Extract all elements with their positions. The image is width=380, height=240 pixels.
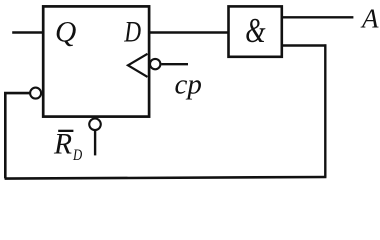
wire right riser <box>324 44 326 177</box>
reset bubble RD <box>89 119 101 131</box>
label R_D overline <box>58 130 73 132</box>
svg-text:cp: cp <box>175 68 202 100</box>
svg-text:&: & <box>245 11 266 50</box>
svg-text:R: R <box>53 129 72 161</box>
and-gate U2 body <box>229 6 282 56</box>
clock bubble <box>150 59 160 69</box>
wire D to AND input <box>149 31 229 33</box>
svg-text:Q: Q <box>55 17 76 49</box>
clock edge triangle <box>128 54 148 77</box>
svg-text:D: D <box>72 147 82 164</box>
wire RD stub <box>94 131 96 156</box>
wire bottom rail <box>5 177 327 179</box>
flip-flop U1 body <box>43 6 149 116</box>
wire AND output to A <box>282 16 354 18</box>
inverted output bubble (left) <box>30 88 41 99</box>
wire bubble to left rail <box>5 93 30 178</box>
svg-text:D: D <box>124 17 142 49</box>
wire Q output stub <box>12 31 43 33</box>
wire AND feedback stub <box>282 44 327 46</box>
wire cp stub <box>161 63 188 65</box>
svg-text:A: A <box>360 3 379 33</box>
